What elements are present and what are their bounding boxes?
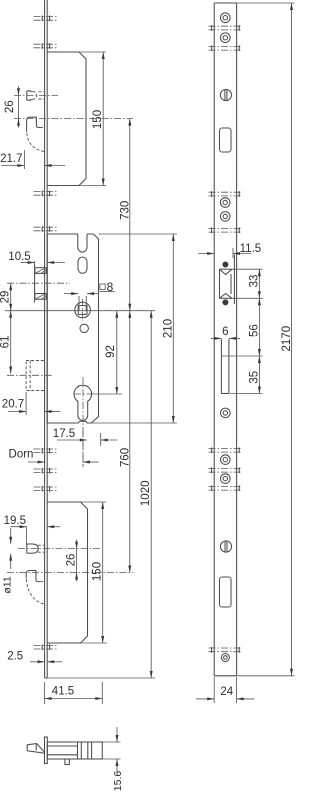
dimension 1020 — [150, 311, 152, 678]
spindle centre extension line — [5, 310, 155, 312]
plate break 1 — [209, 25, 243, 27]
top hook latch — [27, 117, 40, 132]
fixing hole — [80, 324, 88, 332]
faceplate back edge — [46, 0, 48, 678]
hatch top — [36, 268, 46, 273]
plate break 4 — [209, 227, 243, 229]
svg-text:26: 26 — [4, 100, 16, 113]
svg-text:56: 56 — [249, 324, 261, 337]
svg-text:730: 730 — [119, 201, 131, 220]
dimension 20.7 — [25, 392, 27, 415]
plate top extension — [237, 2, 295, 4]
adjustable keeper — [222, 262, 228, 268]
svg-text:150: 150 — [92, 110, 104, 129]
dimension 21.7 — [23, 150, 25, 169]
svg-text:19.5: 19.5 — [4, 515, 26, 527]
dimension 730 — [129, 119, 131, 311]
hidden keeper (dashed) — [26, 361, 44, 391]
dimension 26 top — [18, 86, 20, 95]
top gearbox housing — [47, 52, 86, 186]
dimension 8 square — [64, 293, 78, 295]
latch cutout upper — [220, 128, 232, 152]
plate break 8 — [209, 647, 243, 649]
dimension 26 lower — [76, 540, 78, 549]
svg-text:15.6: 15.6 — [112, 771, 124, 792]
strike plate outline — [213, 3, 215, 676]
faceplate bottom end — [45, 677, 48, 679]
screw hole 2 — [221, 33, 231, 43]
cylinder centre line vertical — [82, 377, 84, 467]
plate bottom extension — [237, 675, 295, 677]
case top extension line — [99, 233, 178, 235]
screw hole 8 — [221, 654, 229, 662]
svg-text:760: 760 — [119, 448, 131, 467]
dimension diameter 11 — [10, 528, 12, 544]
dimension 2170 — [291, 3, 293, 676]
extension bottom edge — [79, 185, 106, 187]
centre keeper piece — [34, 265, 36, 303]
dimension 10.5 — [34, 261, 36, 267]
lower box bottom extension — [81, 642, 108, 644]
lower hook bolt — [26, 571, 40, 582]
dimension 2.5 — [30, 661, 45, 663]
svg-text:150: 150 — [91, 562, 103, 581]
top latch centre line — [14, 118, 133, 120]
cylinder centre extension — [92, 393, 122, 395]
roller cam top (hidden) — [26, 91, 28, 100]
faceplate end extension — [47, 677, 155, 679]
plate break 2 — [209, 45, 243, 47]
plate break 6 — [209, 467, 243, 469]
svg-text:29: 29 — [0, 291, 11, 304]
slotted screw 2 — [220, 541, 231, 552]
spindle follower — [75, 302, 91, 318]
screw hole 3 — [220, 198, 230, 208]
dimension 6 — [211, 337, 222, 339]
svg-text:24: 24 — [220, 686, 233, 698]
dimension 19.5 — [26, 527, 28, 545]
dimension 56 — [258, 298, 260, 356]
keeper centre line — [7, 282, 70, 284]
dimension 17.5 — [100, 433, 102, 446]
svg-text:6: 6 — [222, 326, 228, 338]
guide slot 6 wide — [220, 339, 222, 394]
svg-text:33: 33 — [249, 275, 261, 288]
roller cam top centre line — [14, 94, 58, 96]
svg-text:41.5: 41.5 — [52, 686, 74, 698]
lower hook centre line — [7, 572, 133, 574]
svg-text:61: 61 — [0, 336, 11, 349]
svg-text:10.5: 10.5 — [8, 251, 30, 263]
dimension 150 lower — [102, 502, 104, 643]
keeper top extension — [232, 268, 263, 270]
top edge slot notch — [78, 234, 87, 252]
svg-text:210: 210 — [163, 319, 175, 338]
faceplate break 2 — [34, 43, 58, 45]
hidden keeper centre line — [7, 374, 52, 376]
faceplate break 5 — [34, 448, 58, 450]
dimension 35 — [258, 356, 260, 394]
extension top edge — [79, 51, 106, 53]
dimension 29 — [10, 283, 12, 311]
faceplate break 3 — [34, 191, 58, 193]
plate break 7 — [209, 485, 243, 487]
svg-text:ø11: ø11 — [2, 576, 14, 593]
svg-text:21.7: 21.7 — [0, 153, 22, 165]
plate break 5 — [209, 447, 243, 449]
svg-text:2170: 2170 — [281, 326, 293, 352]
svg-text:92: 92 — [105, 345, 117, 358]
dimension 33 — [258, 269, 260, 298]
dimension 760 — [129, 311, 131, 573]
svg-text:20.7: 20.7 — [2, 399, 24, 411]
cylinder centre line horizontal — [74, 393, 91, 395]
case bottom extension line — [92, 422, 178, 424]
screw hole 1 — [221, 13, 231, 23]
dimension Dorn (backset) — [82, 430, 84, 467]
screw hole 7 — [221, 474, 231, 484]
faceplate break 1 — [34, 16, 58, 18]
faceplate break 8 — [34, 645, 58, 647]
dimension 41.5 — [44, 682, 46, 704]
roller pin lower — [26, 544, 28, 553]
top hook swing arc (hidden) — [27, 133, 45, 152]
bottom view: faceplate bar — [45, 737, 48, 764]
svg-text:11.5: 11.5 — [240, 243, 262, 255]
euro profile cylinder hole — [74, 385, 92, 420]
faceplate front edge — [44, 0, 46, 678]
dimension 11.5 — [232, 248, 234, 258]
faceplate break 6 — [34, 468, 58, 470]
svg-text:35: 35 — [249, 371, 261, 384]
bottom view: latch bolt wedge — [27, 744, 44, 754]
svg-text:1020: 1020 — [140, 481, 152, 507]
screw hole 6 — [221, 455, 231, 465]
dimension 150 top — [102, 52, 104, 186]
svg-text:2.5: 2.5 — [7, 651, 23, 663]
latch cutout lower — [220, 577, 232, 607]
faceplate break 7 — [34, 486, 58, 488]
slot crossbar + extension — [221, 355, 262, 357]
svg-text:Dorn: Dorn — [9, 448, 34, 460]
slot bottom extension — [230, 393, 263, 395]
svg-text:17.5: 17.5 — [53, 428, 75, 440]
roller lower centre line — [18, 548, 101, 550]
slotted screw 1 — [220, 89, 231, 100]
dimension 92 — [116, 311, 118, 394]
hatch bottom — [36, 294, 46, 299]
lower hook swing arc (hidden) — [26, 579, 45, 605]
svg-text:8: 8 — [107, 280, 114, 294]
lower box top extension — [81, 501, 107, 503]
plate break 3 — [209, 191, 243, 193]
faceplate break 4 — [34, 226, 58, 228]
screw hole 5 — [221, 408, 231, 418]
dimension 61 — [10, 311, 12, 374]
svg-text:26: 26 — [66, 554, 78, 567]
main lock case — [47, 234, 98, 423]
dimension 24 — [213, 677, 215, 703]
bottom view: fixing tab — [65, 759, 69, 765]
keeper bottom extension — [232, 297, 263, 299]
dimension 210 — [172, 234, 174, 423]
screw hole 4 — [220, 212, 230, 222]
dimension 15.6 — [102, 741, 120, 743]
lower gearbox housing — [47, 502, 87, 643]
bottom view: lock case — [47, 742, 102, 759]
obround hole — [78, 257, 87, 273]
